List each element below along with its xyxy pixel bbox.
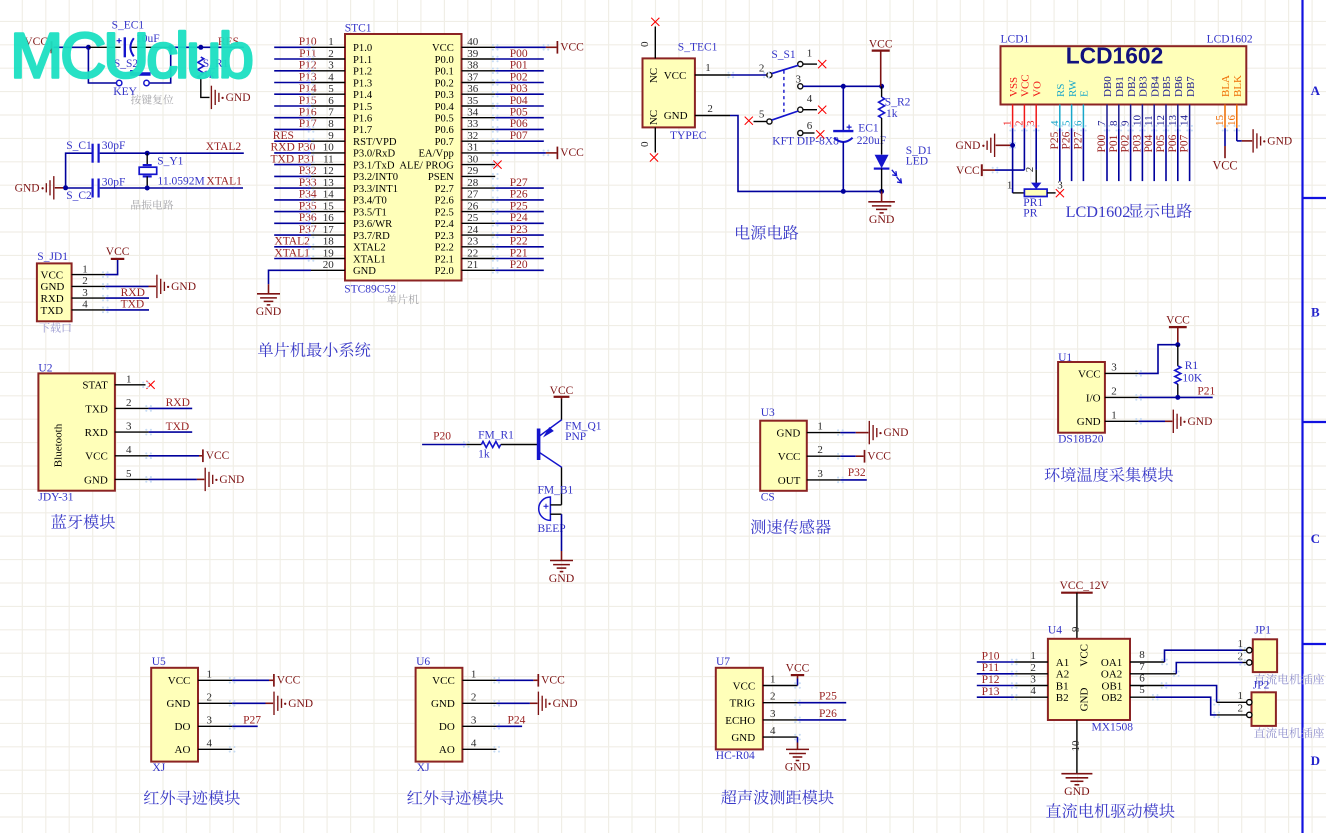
svg-text:4: 4	[807, 93, 813, 105]
svg-text:OB1: OB1	[1102, 680, 1123, 692]
capacitor S_EC1 10uF electrolytic	[112, 20, 160, 58]
svg-text:3: 3	[207, 714, 213, 726]
svg-text:DB0: DB0	[1102, 76, 1114, 97]
module U2 JDY-31 Bluetooth	[38, 363, 115, 504]
title 单片机最小系统	[258, 342, 370, 357]
title 电源电路	[736, 225, 798, 240]
svg-text:LCD1602: LCD1602	[1066, 203, 1131, 221]
svg-text:RXD: RXD	[271, 142, 295, 154]
power port VCC (pin40)	[557, 41, 584, 54]
svg-text:1: 1	[126, 373, 132, 385]
svg-text:VCC: VCC	[869, 39, 893, 51]
svg-text:P2.6: P2.6	[435, 196, 454, 207]
wire U6 pin4	[462, 748, 496, 750]
svg-text:9: 9	[328, 130, 334, 142]
net labels P25 P26 P27 (lcd)	[1049, 131, 1085, 149]
wire lcd blk to gnd	[1237, 128, 1252, 141]
wire U5 pin4	[198, 748, 232, 750]
svg-text:3: 3	[817, 468, 823, 480]
wire XTAL2 net	[147, 152, 244, 154]
switch S_S1 KFT DIP-8X8	[759, 47, 839, 147]
capacitor S_C2 30pF	[66, 176, 125, 201]
label 单片机	[387, 294, 419, 304]
module U3 CS speed sensor	[760, 407, 807, 503]
wire reset rail	[54, 46, 89, 48]
wire VCC_12V to U4 pin9	[1070, 593, 1082, 639]
wire left riser to top rail	[66, 153, 92, 188]
svg-text:ECHO: ECHO	[725, 715, 755, 727]
svg-text:P20: P20	[433, 431, 451, 443]
svg-text:VCC: VCC	[778, 451, 801, 463]
svg-text:1: 1	[817, 421, 823, 433]
svg-text:VCC: VCC	[664, 70, 687, 82]
wire U2 pin5 GND	[115, 478, 204, 480]
svg-text:P06: P06	[510, 118, 528, 130]
svg-text:0: 0	[639, 41, 651, 47]
svg-text:DB3: DB3	[1138, 76, 1150, 97]
svg-text:XTAL1: XTAL1	[274, 247, 310, 259]
net label RXD P30	[271, 142, 316, 154]
pin numbers U4 left	[1030, 650, 1036, 697]
ground GND (U7)	[785, 749, 811, 773]
svg-text:P01: P01	[1108, 134, 1120, 152]
ground GND (crystal)	[15, 176, 54, 199]
svg-text:17: 17	[323, 224, 335, 236]
ground GND (lcd left)	[955, 134, 994, 157]
module U5 XJ infrared	[151, 656, 198, 774]
svg-text:S_TEC1: S_TEC1	[678, 41, 718, 53]
wire U4 pin8 to JP1 pin1	[1130, 650, 1247, 662]
wire U4 pin7 to JP1 pin2	[1130, 663, 1247, 674]
ground GND (U1)	[1173, 410, 1212, 433]
svg-text:XTAL2: XTAL2	[353, 243, 386, 254]
svg-text:PNP: PNP	[565, 431, 586, 443]
svg-text:VCC: VCC	[85, 451, 108, 463]
svg-text:P25: P25	[510, 200, 528, 212]
svg-text:P03: P03	[1131, 134, 1143, 152]
pin numbers S_JD1	[82, 263, 88, 310]
svg-text:E: E	[1079, 90, 1091, 97]
pin numbers U1	[1111, 361, 1117, 421]
svg-text:S_R2: S_R2	[885, 97, 911, 109]
no-erc mark U2 pin1	[147, 381, 155, 389]
crystal S_Y1 11.0592M	[139, 153, 204, 188]
svg-text:22: 22	[467, 247, 478, 259]
pin numbers STC1 right	[467, 36, 479, 271]
wire XTAL1 net	[147, 187, 243, 189]
svg-text:30pF: 30pF	[102, 140, 126, 152]
connector S_JD1 download port	[37, 251, 72, 321]
net labels P27-P20	[510, 177, 528, 271]
wire emitter to VCC	[561, 399, 563, 420]
svg-text:LCD1602: LCD1602	[1066, 43, 1164, 69]
svg-text:B2: B2	[1056, 692, 1069, 704]
node junction reset-right	[168, 45, 173, 50]
svg-text:P20: P20	[510, 259, 528, 271]
wires lcd data nets	[1107, 128, 1190, 181]
svg-text:P03: P03	[510, 83, 528, 95]
wire S_R1 to ground	[201, 79, 210, 98]
svg-text:P27: P27	[243, 714, 261, 726]
svg-text:P3.5/T1: P3.5/T1	[353, 207, 387, 218]
svg-text:GND: GND	[256, 304, 282, 318]
node junction xtal2	[145, 151, 150, 156]
transistor FM_Q1 PNP	[539, 420, 602, 468]
svg-text:P3.2/INT0: P3.2/INT0	[353, 172, 398, 183]
svg-text:D: D	[1311, 753, 1320, 768]
net labels P00-P07	[510, 48, 528, 142]
resistor FM_R1 1k	[478, 430, 514, 461]
wire cap to junction	[132, 46, 171, 48]
net label TXD P31	[271, 153, 316, 165]
svg-text:GND: GND	[167, 698, 191, 710]
wire U4 pin5 to JP2 pin2	[1130, 697, 1247, 715]
svg-text:P3.3/INT1: P3.3/INT1	[353, 184, 398, 195]
ground GND (U3)	[869, 421, 908, 444]
node junction led bottom	[879, 189, 884, 194]
wire U4 pin6 to JP2 pin1	[1130, 686, 1247, 703]
svg-text:2: 2	[207, 691, 213, 703]
svg-text:U7: U7	[716, 656, 730, 668]
svg-text:33: 33	[467, 118, 479, 130]
title 蓝牙模块	[51, 514, 115, 529]
ground GND (U4)	[1061, 774, 1092, 798]
node junction reset-left	[86, 45, 91, 50]
svg-text:10: 10	[1131, 115, 1143, 127]
svg-text:FM_R1: FM_R1	[478, 430, 514, 442]
svg-text:37: 37	[467, 71, 479, 83]
power port VCC (pin31)	[557, 147, 584, 160]
svg-text:GND: GND	[1188, 416, 1213, 428]
svg-text:15: 15	[323, 200, 335, 212]
svg-text:RST/VPD: RST/VPD	[353, 137, 397, 148]
svg-text:P3.0/RxD: P3.0/RxD	[353, 149, 395, 160]
svg-text:20: 20	[323, 259, 335, 271]
svg-text:VCC: VCC	[867, 450, 891, 462]
label 直流电机插座 (JP1)	[1254, 674, 1324, 685]
wire gnd to junction	[55, 187, 66, 189]
svg-text:RXD: RXD	[85, 427, 108, 439]
svg-text:A1: A1	[1056, 657, 1069, 669]
svg-text:STC89C52: STC89C52	[344, 283, 396, 295]
wire lcd vss to gnd	[996, 128, 1013, 145]
led S_D1	[874, 145, 932, 191]
module U4 MX1508 motor driver	[1048, 624, 1133, 733]
svg-text:1: 1	[807, 47, 813, 59]
svg-text:19: 19	[323, 247, 335, 259]
svg-text:12: 12	[323, 165, 334, 177]
svg-text:30: 30	[467, 153, 479, 165]
svg-text:VCC: VCC	[560, 41, 584, 53]
svg-text:A: A	[1311, 83, 1321, 98]
svg-text:5: 5	[126, 468, 132, 480]
svg-text:VCC: VCC	[541, 674, 565, 686]
svg-text:1: 1	[471, 668, 477, 680]
svg-text:AO: AO	[439, 744, 455, 756]
svg-text:RS: RS	[1055, 84, 1067, 97]
svg-text:12: 12	[1155, 115, 1167, 126]
svg-text:P25: P25	[819, 691, 837, 703]
svg-text:Bluetooth: Bluetooth	[53, 423, 65, 467]
no-erc mark switch pin5	[745, 117, 753, 125]
svg-text:0: 0	[639, 141, 651, 147]
svg-text:OB2: OB2	[1102, 692, 1123, 704]
svg-text:38: 38	[467, 60, 479, 72]
svg-text:DB2: DB2	[1126, 76, 1138, 97]
svg-text:GND: GND	[549, 571, 575, 585]
svg-text:B1: B1	[1056, 680, 1069, 692]
svg-text:P1.7: P1.7	[353, 125, 372, 136]
wire U1 pin2 P21	[1105, 396, 1213, 398]
svg-text:2: 2	[82, 275, 88, 287]
svg-text:VCC: VCC	[550, 385, 574, 397]
wire C1 to crystal node	[100, 152, 148, 154]
svg-text:DB1: DB1	[1114, 76, 1126, 97]
svg-text:1: 1	[82, 263, 88, 275]
svg-text:P0.1: P0.1	[435, 67, 454, 78]
capacitor S_C1 30pF	[66, 140, 125, 163]
svg-text:EC1: EC1	[858, 123, 879, 135]
svg-text:GND: GND	[1077, 416, 1101, 428]
svg-text:35: 35	[467, 95, 479, 107]
wire collector to buzzer	[561, 468, 563, 505]
svg-text:KFT DIP-8X8: KFT DIP-8X8	[772, 136, 839, 148]
svg-text:5: 5	[328, 83, 334, 95]
svg-text:MX1508: MX1508	[1092, 721, 1134, 733]
svg-text:2: 2	[1030, 662, 1036, 674]
svg-text:P3.7/RD: P3.7/RD	[353, 231, 390, 242]
svg-text:JDY-31: JDY-31	[38, 492, 73, 504]
ground GND (U2)	[205, 468, 244, 491]
svg-text:P04: P04	[1143, 134, 1155, 152]
svg-text:14: 14	[1179, 115, 1191, 127]
net labels P32-P37	[299, 165, 317, 236]
svg-text:P3.4/T0: P3.4/T0	[353, 196, 387, 207]
pin numbers U3	[817, 421, 823, 480]
title LCD1602显示电路	[1066, 203, 1192, 221]
svg-text:GND: GND	[1079, 688, 1091, 712]
svg-text:2: 2	[1024, 167, 1036, 173]
svg-text:13: 13	[323, 177, 335, 189]
wires lcd rs rw e nets	[1060, 128, 1084, 181]
wire U4 pin10 gnd	[1070, 720, 1082, 774]
svg-text:RXD: RXD	[121, 287, 145, 299]
svg-text:15: 15	[1214, 115, 1226, 127]
ground GND (reset)	[211, 86, 250, 109]
potentiometer PR1	[1007, 145, 1063, 219]
sheet border right edge with zone dividers	[1303, 0, 1326, 833]
wire key switch left leg	[88, 47, 116, 83]
wire C2 to xtal1 node	[100, 187, 148, 189]
svg-text:P26: P26	[1061, 131, 1073, 149]
svg-text:2: 2	[1111, 385, 1117, 397]
svg-text:4: 4	[207, 737, 213, 749]
wire TYPEC pin1 to switch	[695, 62, 767, 75]
pin numbers STC1 left	[323, 36, 335, 271]
wire U1 pin3 vcc	[1105, 345, 1178, 374]
svg-text:P22: P22	[510, 236, 528, 248]
svg-text:1: 1	[1238, 690, 1244, 702]
wires STC1 right pins	[462, 47, 496, 270]
svg-text:HC-R04: HC-R04	[716, 750, 755, 762]
svg-text:VO: VO	[1031, 81, 1043, 97]
svg-text:1: 1	[207, 668, 213, 680]
svg-text:GND: GND	[431, 698, 455, 710]
label 按键复位	[131, 94, 174, 104]
lcd pin stubs	[1013, 105, 1237, 129]
svg-text:OA2: OA2	[1101, 669, 1122, 681]
svg-text:26: 26	[467, 200, 479, 212]
svg-text:36: 36	[467, 83, 479, 95]
svg-text:C: C	[1311, 531, 1320, 546]
no-erc mark switch pin1	[818, 60, 826, 68]
svg-text:1: 1	[1030, 650, 1036, 662]
power port VCC (U6)	[538, 674, 565, 687]
svg-text:JP2: JP2	[1253, 679, 1270, 691]
label 晶振电路	[131, 200, 173, 210]
net labels P10-P17	[299, 36, 317, 130]
svg-text:S_Y1: S_Y1	[157, 155, 183, 167]
connector JP1 motor socket	[1238, 625, 1278, 673]
power port VCC (supply)	[869, 39, 893, 87]
svg-text:P2.7: P2.7	[435, 184, 454, 195]
svg-text:P10: P10	[982, 651, 1000, 663]
wire switch pin6 stub	[803, 132, 815, 134]
label 直流电机插座 (JP2)	[1254, 727, 1324, 738]
wire U7 pin3 P26	[763, 719, 846, 721]
wire U2 pin2 RXD	[115, 407, 192, 409]
svg-text:1: 1	[328, 36, 334, 48]
node junction lcd gnd	[1010, 143, 1015, 148]
wire to resistor column and RES label	[171, 46, 244, 48]
wire STC1 pin20 to ground	[269, 270, 346, 294]
svg-text:2: 2	[328, 48, 334, 60]
power port VCC (U1)	[1166, 315, 1190, 345]
svg-text:VCC: VCC	[1020, 74, 1032, 97]
svg-text:P24: P24	[510, 212, 528, 224]
wire switch pin3 to rails	[803, 85, 882, 87]
net labels P10-P13 (motor)	[982, 651, 1000, 698]
svg-text:VCC: VCC	[786, 663, 810, 675]
ground GND (U6)	[538, 692, 577, 715]
svg-text:2: 2	[770, 691, 776, 703]
svg-text:NC: NC	[648, 68, 660, 83]
node junction xtal1	[145, 186, 150, 191]
svg-text:RXD: RXD	[41, 293, 64, 305]
svg-text:P01: P01	[510, 60, 528, 72]
wire connection marks	[102, 44, 1246, 753]
svg-text:PR: PR	[1023, 208, 1037, 220]
capacitor EC1 220uF	[833, 86, 886, 191]
node junction cap bottom	[841, 189, 846, 194]
svg-text:P2.3: P2.3	[435, 231, 454, 242]
svg-text:P3.1/TxD: P3.1/TxD	[353, 160, 395, 171]
no-erc mark pot pin3	[1056, 189, 1064, 197]
svg-text:2: 2	[707, 103, 713, 115]
svg-text:S_JD1: S_JD1	[37, 251, 68, 263]
svg-text:P07: P07	[510, 130, 528, 142]
ground GND (lcd right)	[1253, 129, 1292, 152]
svg-text:P00: P00	[1096, 134, 1108, 152]
svg-text:29: 29	[467, 165, 479, 177]
wire U2 pin1	[115, 384, 146, 386]
power port VCC (U5)	[274, 674, 301, 687]
svg-text:P12: P12	[982, 674, 1000, 686]
svg-text:XJ: XJ	[417, 762, 430, 774]
power port VCC (S_JD1)	[106, 246, 130, 259]
wire lcd vo to pot wiper	[1035, 128, 1037, 183]
svg-text:DO: DO	[439, 721, 455, 733]
svg-text:GND: GND	[955, 140, 980, 152]
svg-text:18: 18	[323, 236, 335, 248]
svg-text:GND: GND	[171, 281, 196, 293]
pin numbers U6	[471, 668, 477, 749]
svg-text:P1.0: P1.0	[353, 43, 372, 54]
svg-text:GND: GND	[553, 698, 578, 710]
wire bottom rail	[66, 187, 92, 189]
no-erc mark pin30	[493, 161, 501, 169]
ground GND (supply)	[868, 191, 895, 226]
svg-text:16: 16	[323, 212, 335, 224]
svg-text:P1.2: P1.2	[353, 67, 372, 78]
lcd pin numbers	[1002, 115, 1238, 127]
svg-text:P25: P25	[1049, 131, 1061, 149]
svg-text:GND: GND	[869, 212, 895, 226]
resistor R1 10K	[1175, 345, 1203, 398]
module U7 HC-R04 ultrasonic	[716, 656, 763, 762]
svg-text:4: 4	[328, 71, 334, 83]
svg-text:3: 3	[328, 60, 334, 72]
svg-text:VCC: VCC	[168, 675, 191, 687]
svg-text:STC1: STC1	[345, 22, 372, 34]
svg-text:4: 4	[126, 444, 132, 456]
wire U6 pin2 gnd	[462, 702, 537, 704]
svg-text:13: 13	[1167, 115, 1179, 127]
pin numbers U4 right	[1139, 649, 1145, 696]
module U6 XJ infrared	[416, 656, 463, 774]
svg-text:28: 28	[467, 177, 479, 189]
svg-text:GND: GND	[219, 474, 244, 486]
svg-text:3: 3	[1111, 361, 1117, 373]
pin numbers U5	[207, 668, 213, 749]
svg-text:STAT: STAT	[82, 380, 108, 392]
ground GND (U5)	[274, 692, 313, 715]
pin numbers U7	[770, 674, 776, 738]
wires P0 bus nets	[495, 59, 544, 141]
svg-text:34: 34	[467, 107, 479, 119]
svg-text:P00: P00	[510, 48, 528, 60]
wire U7 pin2 P25	[763, 702, 846, 704]
svg-text:P26: P26	[510, 189, 528, 201]
svg-text:JP1: JP1	[1254, 625, 1271, 637]
svg-text:VCC_12V: VCC_12V	[1060, 580, 1110, 592]
svg-text:U4: U4	[1048, 624, 1062, 636]
svg-text:U3: U3	[761, 407, 775, 419]
svg-text:1: 1	[1007, 180, 1013, 192]
wire U5 pin2 gnd	[198, 702, 273, 704]
svg-text:P11: P11	[982, 662, 1000, 674]
svg-text:21: 21	[467, 259, 478, 271]
svg-text:XTAL2: XTAL2	[274, 236, 310, 248]
svg-text:TXD: TXD	[85, 403, 108, 415]
node junction at S_R1	[198, 45, 203, 50]
svg-text:39: 39	[467, 48, 479, 60]
svg-text:P10: P10	[299, 36, 317, 48]
svg-text:P0.4: P0.4	[435, 102, 455, 113]
svg-text:P2.1: P2.1	[435, 254, 454, 265]
svg-text:P1.3: P1.3	[353, 78, 372, 89]
svg-text:S_C1: S_C1	[66, 140, 92, 152]
